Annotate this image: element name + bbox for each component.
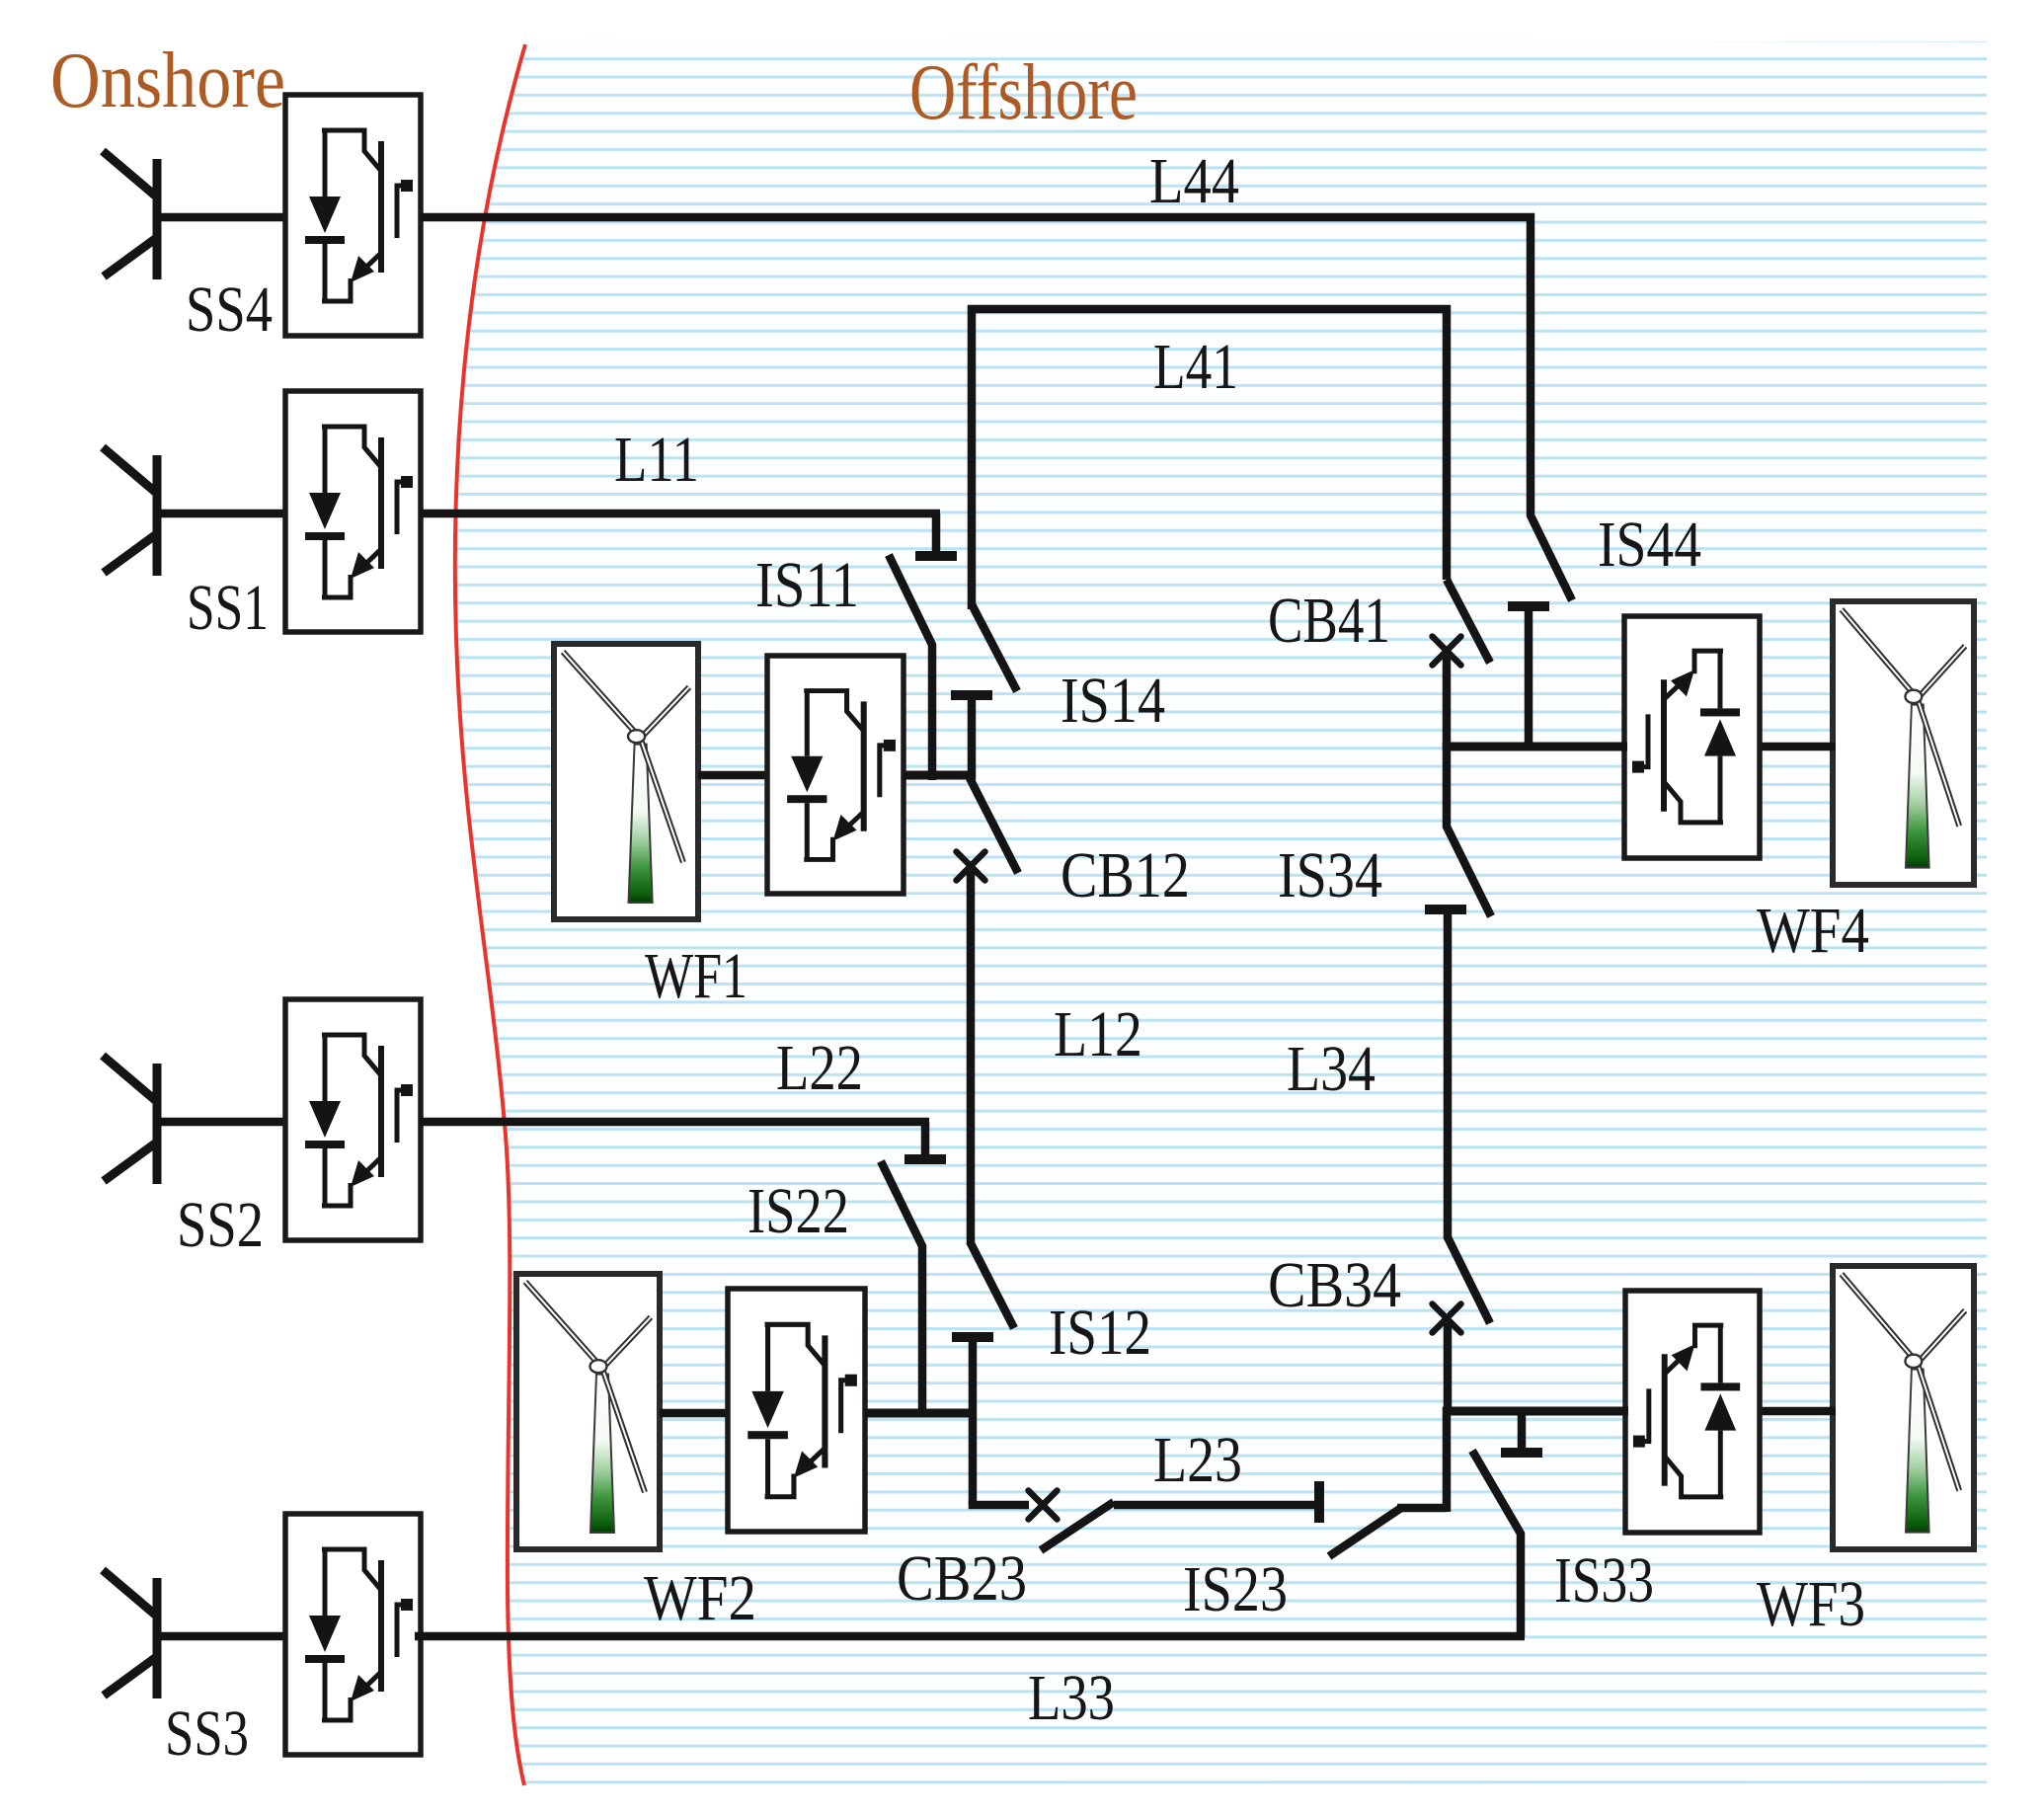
svg-text:L22: L22 <box>776 1032 863 1104</box>
svg-text:L11: L11 <box>614 424 699 496</box>
svg-text:Offshore: Offshore <box>909 47 1138 136</box>
svg-text:CB41: CB41 <box>1268 585 1390 657</box>
svg-text:IS33: IS33 <box>1554 1544 1654 1617</box>
svg-text:WF4: WF4 <box>1757 895 1869 967</box>
svg-text:L23: L23 <box>1153 1424 1242 1496</box>
svg-text:IS14: IS14 <box>1061 665 1165 737</box>
svg-text:CB12: CB12 <box>1061 839 1190 911</box>
svg-text:IS12: IS12 <box>1049 1297 1151 1369</box>
svg-text:IS22: IS22 <box>747 1175 849 1247</box>
svg-text:IS44: IS44 <box>1598 509 1701 581</box>
svg-text:L34: L34 <box>1287 1033 1376 1105</box>
svg-text:CB23: CB23 <box>897 1542 1027 1615</box>
svg-text:SS1: SS1 <box>187 572 269 644</box>
svg-text:WF3: WF3 <box>1757 1568 1865 1640</box>
svg-text:SS3: SS3 <box>165 1697 249 1770</box>
svg-text:IS23: IS23 <box>1183 1553 1288 1625</box>
svg-text:Onshore: Onshore <box>50 36 285 124</box>
svg-text:WF2: WF2 <box>644 1562 756 1634</box>
svg-text:IS11: IS11 <box>755 549 859 621</box>
svg-text:CB34: CB34 <box>1268 1249 1401 1321</box>
svg-text:SS2: SS2 <box>177 1189 264 1261</box>
svg-text:L41: L41 <box>1153 331 1238 403</box>
svg-text:SS4: SS4 <box>186 274 273 346</box>
svg-text:L12: L12 <box>1054 998 1142 1070</box>
svg-text:IS34: IS34 <box>1278 839 1382 911</box>
svg-text:L33: L33 <box>1028 1662 1115 1734</box>
svg-text:WF1: WF1 <box>645 940 747 1012</box>
svg-text:L44: L44 <box>1149 145 1239 217</box>
